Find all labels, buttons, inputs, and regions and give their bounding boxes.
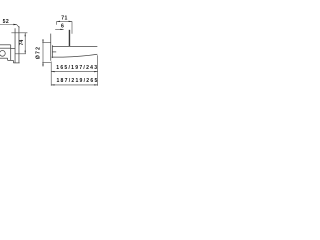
svg-text:71: 71 bbox=[61, 16, 67, 22]
right view escutcheon line bbox=[51, 45, 53, 58]
handle pin bbox=[69, 30, 70, 47]
dimension 74 bottom tick bbox=[15, 53, 26, 55]
handle block right edge bbox=[10, 45, 12, 61]
dimension 74 line bbox=[24, 33, 26, 54]
left view wall line bbox=[18, 26, 20, 63]
left view plate line bbox=[14, 28, 16, 63]
dimension 165/197/243 line bbox=[51, 71, 97, 73]
bottom dims left extension bbox=[50, 62, 52, 86]
left view top face bbox=[0, 44, 11, 46]
dimension O72 top arrow bbox=[42, 40, 43, 43]
left view step to plate bbox=[11, 48, 15, 50]
dimension 187/219/265 line bbox=[51, 84, 97, 86]
dimension 52 oblique extension bbox=[17, 25, 20, 28]
dimension 165 left arrow bbox=[51, 71, 55, 72]
dimension 187 left arrow bbox=[51, 84, 55, 85]
spout underside bbox=[52, 54, 98, 57]
svg-text:165/197/243: 165/197/243 bbox=[56, 65, 98, 71]
left view bottom edge bbox=[13, 62, 19, 64]
handle block top bbox=[0, 47, 11, 49]
left view base step vertical bbox=[12, 60, 14, 63]
dimension O72 line bbox=[42, 39, 44, 66]
dimension 74 text bbox=[19, 40, 25, 46]
dimension 74 top tick bbox=[11, 32, 27, 34]
dimension 74 top arrow bbox=[25, 33, 26, 37]
left view notch vertical bbox=[7, 58, 9, 60]
dimension 71 left extension bbox=[56, 21, 58, 24]
dimension 71 right arrow bbox=[69, 21, 73, 22]
dimension 187 right arrow bbox=[94, 84, 98, 85]
dimension 71 right extension bbox=[71, 21, 73, 33]
dimension 71 line bbox=[57, 20, 72, 22]
dimension 74 bottom arrow bbox=[25, 51, 26, 55]
handle circle bbox=[0, 51, 5, 57]
dimension 165 right arrow bbox=[94, 71, 98, 72]
spout root stub bbox=[52, 51, 56, 53]
right view wall line bbox=[50, 34, 52, 61]
svg-text:6: 6 bbox=[61, 24, 64, 30]
dimension O72 bottom tick bbox=[42, 62, 51, 64]
dimension 52 line bbox=[0, 24, 17, 26]
svg-text:74: 74 bbox=[19, 40, 25, 46]
svg-text:187/219/265: 187/219/265 bbox=[56, 78, 98, 84]
spout top line bbox=[52, 45, 97, 47]
dimension O72 bottom arrow bbox=[42, 62, 43, 65]
handle block bottom bbox=[0, 57, 8, 59]
dimension 52 arrow bbox=[13, 24, 17, 26]
dimension O72 top tick bbox=[42, 42, 51, 44]
left view base line bbox=[8, 59, 14, 61]
dimension 6 arrow bbox=[60, 29, 64, 30]
dimension 71 left arrow bbox=[57, 21, 61, 22]
bottom dims right extension bbox=[97, 55, 99, 86]
dimension O72 text bbox=[36, 46, 42, 59]
svg-text:Ø72: Ø72 bbox=[36, 46, 42, 59]
dimension 6 line bbox=[55, 28, 63, 30]
